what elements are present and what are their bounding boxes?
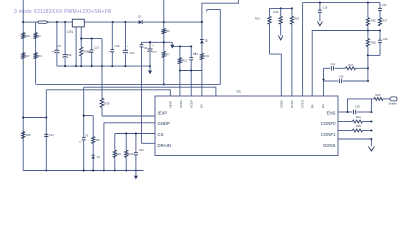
svg-text:mW: mW (88, 52, 92, 54)
svg-text:R8: R8 (96, 138, 100, 142)
svg-text:D2: D2 (205, 39, 209, 43)
svg-text:R23M: R23M (128, 154, 134, 156)
svg-text:D1: D1 (138, 15, 142, 19)
svg-text:C16: C16 (323, 5, 328, 9)
svg-text:CS: CS (158, 132, 164, 137)
svg-text:3 mode X21183XXX PWM+LDO+SR+FB: 3 mode X21183XXX PWM+LDO+SR+FB (14, 9, 112, 15)
svg-text:R28: R28 (371, 41, 376, 45)
svg-text:R17: R17 (25, 54, 30, 58)
svg-text:R26: R26 (371, 19, 376, 23)
svg-text:R25: R25 (356, 124, 361, 128)
svg-text:R11: R11 (205, 54, 210, 58)
svg-text:C7: C7 (153, 50, 157, 54)
svg-text:R28: R28 (105, 101, 110, 105)
svg-text:U1: U1 (237, 89, 241, 93)
svg-text:R2a: R2a (356, 115, 361, 119)
svg-text:R12: R12 (182, 58, 187, 62)
svg-text:FB: FB (311, 104, 315, 108)
svg-text:CONF1: CONF1 (321, 132, 336, 137)
svg-text:R9: R9 (37, 34, 41, 38)
svg-text:VDDA: VDDA (279, 100, 283, 108)
svg-text:HV: HV (200, 104, 204, 108)
svg-text:C6: C6 (85, 133, 89, 137)
svg-text:C18: C18 (355, 105, 360, 109)
svg-text:C21: C21 (382, 3, 387, 7)
svg-text:R23: R23 (376, 93, 381, 97)
svg-text:R18: R18 (26, 133, 31, 137)
svg-text:C13: C13 (94, 45, 99, 49)
svg-text:VCCP: VCCP (189, 100, 193, 108)
svg-text:XCO2: XCO2 (179, 100, 183, 109)
svg-text:C11: C11 (331, 62, 336, 66)
svg-text:ms: ms (79, 141, 82, 143)
svg-text:C18: C18 (67, 53, 72, 57)
svg-text:C17: C17 (57, 44, 62, 48)
svg-text:CONF0: CONF0 (321, 121, 336, 126)
svg-text:C14: C14 (130, 51, 135, 55)
svg-text:VINP: VINP (169, 101, 173, 108)
svg-text:GONS: GONS (323, 143, 336, 148)
svg-text:C19: C19 (339, 75, 344, 79)
svg-text:C20: C20 (139, 148, 144, 152)
svg-text:R22: R22 (116, 152, 121, 156)
svg-text:IEXP: IEXP (158, 110, 168, 115)
svg-text:GNDP: GNDP (158, 121, 171, 126)
svg-text:ENS: ENS (327, 110, 336, 115)
svg-text:ms: ms (109, 51, 112, 53)
svg-text:EA: EA (321, 104, 325, 108)
svg-text:LR1: LR1 (67, 30, 73, 34)
svg-text:R16: R16 (25, 34, 30, 38)
svg-text:R27: R27 (383, 19, 388, 23)
svg-text:R12: R12 (255, 17, 260, 21)
svg-text:R20: R20 (294, 17, 299, 21)
svg-text:C12: C12 (49, 133, 54, 137)
svg-text:DRAIN: DRAIN (158, 143, 171, 148)
svg-text:R10: R10 (37, 54, 42, 58)
svg-text:C9: C9 (144, 46, 148, 50)
svg-text:C15: C15 (115, 44, 120, 48)
svg-text:R6: R6 (166, 29, 170, 33)
svg-text:R19: R19 (274, 10, 279, 14)
svg-text:R7: R7 (166, 53, 170, 57)
svg-text:R17: R17 (349, 63, 354, 67)
svg-text:C22: C22 (383, 37, 388, 41)
svg-text:Enable: Enable (389, 103, 397, 106)
svg-text:VCCS: VCCS (300, 100, 304, 108)
svg-text:ZCO2: ZCO2 (290, 100, 294, 108)
